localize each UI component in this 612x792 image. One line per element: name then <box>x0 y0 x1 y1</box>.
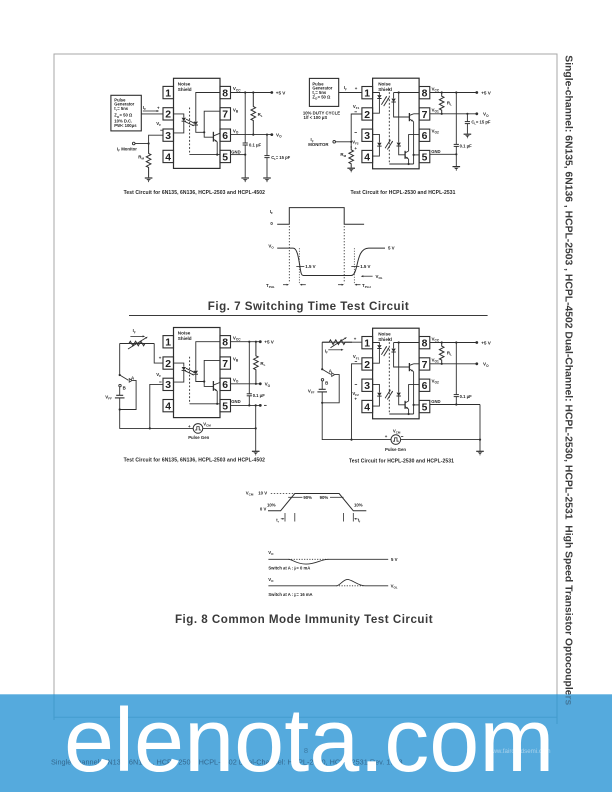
node +5V terminal (circuit 2) <box>475 91 478 94</box>
junction vcc bus U2 <box>398 91 400 93</box>
wire emitter2 to bottom rail U4 <box>408 409 410 414</box>
wire pin6 to collector2 U2 <box>409 135 420 151</box>
wire VCM to ground (fig8 right) <box>401 439 480 441</box>
wire LED2 cathode to pin4 U4 <box>373 397 380 407</box>
node +5V terminal (fig8 left) <box>259 340 262 343</box>
svg-text:7: 7 <box>222 359 228 370</box>
svg-text:Shield: Shield <box>378 337 392 342</box>
svg-text:7: 7 <box>422 360 428 371</box>
svg-text:Pulse Gen: Pulse Gen <box>188 435 209 440</box>
pin 2 U1 <box>163 108 174 120</box>
svg-text:+: + <box>157 106 160 111</box>
svg-text:90%: 90% <box>320 495 329 500</box>
internal shield dashed line U3 <box>189 357 191 404</box>
junction emitter1-pin5 U4 <box>413 404 415 406</box>
internal bottom ground rail U2 <box>389 163 413 165</box>
pin 6 U1 <box>220 129 231 141</box>
capacitor 0.1uF bypass (circuit 1) <box>244 93 246 144</box>
svg-text:B: B <box>123 385 126 390</box>
pin 5 U1 <box>220 150 231 162</box>
IF monitor terminal (circuit 2) <box>333 141 336 144</box>
svg-text:8: 8 <box>422 89 428 100</box>
pulse generator source box (circuit 1) <box>111 95 141 131</box>
node gnd terminal (fig8 left) <box>259 404 262 407</box>
pin 4 U1 <box>163 150 174 162</box>
wire pin5 gnd rail (fig8 right) <box>430 404 480 406</box>
wire pin6 to VO (fig8 left) <box>231 383 261 385</box>
wire photodiode1 to base1 U2 <box>394 102 410 117</box>
wire VCC rail to +5V (fig8 left) <box>231 341 261 343</box>
pin 6 U4 <box>419 379 430 391</box>
svg-text:PW< 100μs: PW< 100μs <box>114 123 137 128</box>
pin 5 U2 <box>419 150 430 162</box>
junction bypass bottom (fig8 left) <box>248 404 250 406</box>
svg-text:5: 5 <box>422 402 428 413</box>
svg-text:3: 3 <box>364 131 370 142</box>
IF current arrow (circuit 1) <box>143 110 158 112</box>
wire contact A loop (fig8 right) <box>322 375 339 403</box>
svg-text:= 50 Ω: = 50 Ω <box>318 95 331 100</box>
wire pin5 stub U4 <box>414 404 420 406</box>
wire LED cathode to pin3 U1 <box>174 122 184 133</box>
wire photodiode1 to base1 U4 <box>394 352 410 367</box>
IF monitor terminal (circuit 1) <box>132 142 135 145</box>
wire pin8 rail U2 <box>394 92 420 94</box>
wire pulse generator to pin 2 <box>141 113 163 115</box>
resistor RM (circuit 2) <box>349 146 354 168</box>
wire LED1 cathode to pin2 U4 <box>373 349 380 363</box>
wire pin3 to LED2 U4 <box>373 384 380 392</box>
pin 2 U4 <box>362 358 373 370</box>
junction gnd drop (fig8 left) <box>255 404 257 406</box>
junction RL bottom / VO rail <box>252 134 254 136</box>
svg-text:10%: 10% <box>354 502 363 507</box>
photodiode channel 2 U2 <box>397 143 401 146</box>
junction bypass top (fig8 right) <box>455 341 457 343</box>
pin 4 U4 <box>362 400 373 412</box>
tf fall time measure <box>343 513 345 522</box>
node VO terminal (fig8 left) <box>259 382 262 385</box>
wire gnd rail down (fig8 left) <box>255 405 257 451</box>
wire LED1 cathode to pin2 U2 <box>373 99 380 113</box>
junction battery bottom (fig8 right) <box>321 402 323 404</box>
svg-text:+5 V: +5 V <box>481 340 492 345</box>
LED emitter diode U3 <box>182 367 186 370</box>
svg-text:Test Circuit for HCPL-2530 and: Test Circuit for HCPL-2530 and HCPL-2531 <box>350 190 455 196</box>
svg-text:+5 V: +5 V <box>481 90 492 95</box>
switch contact B (fig8 left) <box>119 384 121 386</box>
pin 8 U4 <box>419 337 430 349</box>
svg-text:1.5 V: 1.5 V <box>305 264 315 269</box>
svg-text:3: 3 <box>364 381 370 392</box>
svg-text:+: + <box>354 336 357 341</box>
battery VFF (fig8 right) <box>321 381 323 389</box>
resistor RL load (circuit 1) <box>251 93 256 135</box>
junction RL bottom (fig8 left) <box>255 383 257 385</box>
optocoupler package U3 <box>174 328 221 418</box>
svg-text:1: 1 <box>364 339 370 350</box>
1.5V threshold marker left <box>298 248 300 283</box>
svg-text:+5 V: +5 V <box>276 90 287 95</box>
svg-text:2: 2 <box>165 110 171 121</box>
light coupling arrows U1 <box>186 119 195 123</box>
resistor RM (circuit 1) <box>146 144 151 178</box>
wire LED cathode to pin3 U3 <box>174 371 184 382</box>
output transistor U1 <box>212 132 214 142</box>
svg-text:Noise: Noise <box>378 331 391 336</box>
svg-text:= 50 Ω: = 50 Ω <box>120 113 133 118</box>
junction base node U1 <box>203 131 205 133</box>
pin 1 U2 <box>362 87 373 99</box>
pin 1 U3 <box>163 336 174 348</box>
pin 1 U4 <box>362 337 373 349</box>
svg-text:Switch at A : I: Switch at A : I <box>268 566 295 571</box>
wire transistor emitter to pin5 rail U1 <box>216 142 218 155</box>
LED channel 1 U4 <box>377 345 381 348</box>
junction battery bottom (fig8 left) <box>119 408 121 410</box>
wire gnd down (fig8 right) <box>479 405 481 452</box>
svg-text:8: 8 <box>222 338 228 349</box>
junction monitor node (circuit 2) <box>350 141 352 143</box>
svg-text:Noise: Noise <box>178 82 191 87</box>
wire pin1 to LED1 U4 <box>373 343 380 345</box>
wire pin1 to LED1 U2 <box>373 93 380 95</box>
switch pole (fig8 right) <box>321 368 323 370</box>
svg-text:elenota.com: elenota.com <box>64 691 554 791</box>
svg-text:MONITOR: MONITOR <box>308 142 329 147</box>
separator rule under Fig.7 title <box>129 315 488 317</box>
wire photodiode to base node U3 <box>196 375 214 387</box>
wire emitter1 to gnd rail U2 <box>413 121 415 164</box>
svg-text:Test Circuit for 6N135, 6N136,: Test Circuit for 6N135, 6N136, HCPL-2503… <box>124 457 266 463</box>
svg-text:6: 6 <box>222 380 228 391</box>
svg-text:+: + <box>159 356 162 361</box>
capacitor 0.1uF bypass (circuit 2) <box>455 93 457 145</box>
variable resistor IF drive (fig8 right) <box>322 341 362 343</box>
svg-text:Shield: Shield <box>378 87 392 92</box>
output transistor U3 <box>212 381 214 391</box>
pin 3 U4 <box>362 379 373 391</box>
output transistor channel2 U2 <box>404 151 406 159</box>
svg-text:7: 7 <box>222 110 228 121</box>
svg-text:Noise: Noise <box>178 331 191 336</box>
output transistor channel1 U2 <box>408 113 410 121</box>
node VO terminal (fig8 right) <box>475 362 478 365</box>
junction pin2/VCM rail <box>350 439 352 441</box>
junction pin3/VCM rail <box>149 427 151 429</box>
wire photodiode2 to base2 U4 <box>399 396 405 404</box>
capacitor 0.1uF (fig8 right) <box>455 343 457 395</box>
svg-text:+: + <box>188 424 191 429</box>
svg-text:5 V: 5 V <box>388 245 395 250</box>
svg-text:+: + <box>385 434 388 439</box>
output transistor channel2 U4 <box>404 401 406 409</box>
wire battery to VCM rail (fig8 right) <box>322 403 391 440</box>
svg-text:B: B <box>325 381 328 386</box>
node VF2 labels (circuit 2) <box>355 132 357 134</box>
svg-text:4: 4 <box>364 152 370 163</box>
1.5V threshold marker right <box>353 248 355 283</box>
wire pin3 to IF monitor node <box>149 135 163 143</box>
wire LED2 cathode to pin4 U2 <box>373 147 380 157</box>
wire pin7 to base node U1 <box>204 111 220 132</box>
photodiode channel 1 U4 <box>391 349 395 352</box>
junction bypass top (circuit 2) <box>455 91 457 93</box>
vcc bus wire to channel2 U4 <box>398 343 400 393</box>
junction RL top <box>252 91 254 93</box>
capacitor 0.1uF (fig8 left) <box>248 342 250 394</box>
ground CL (circuit 2) <box>464 133 472 135</box>
svg-text:4: 4 <box>165 402 171 413</box>
switch contact A (fig8 left) <box>129 379 132 383</box>
wire resistor to pin2 (fig8 left) <box>154 344 163 364</box>
junction RL top (fig8 left) <box>255 341 257 343</box>
photodiode U1 <box>194 122 198 125</box>
svg-text:= 16 mA: = 16 mA <box>296 592 312 597</box>
photodiode channel 2 U4 <box>397 393 401 396</box>
pin 6 U2 <box>419 129 430 141</box>
junction bypass bottom (fig8 right) <box>455 403 457 405</box>
wire pin7 to collector1 U2 <box>414 113 420 115</box>
pin 5 U3 <box>220 400 231 412</box>
resistor RL load (circuit 2) <box>439 93 444 114</box>
svg-text:+5 V: +5 V <box>264 340 275 345</box>
svg-text:Fig. 7 Switching Time Test Cir: Fig. 7 Switching Time Test Circuit <box>208 300 409 313</box>
svg-text:Switch at A : I: Switch at A : I <box>268 592 295 597</box>
pin 7 U1 <box>220 108 231 120</box>
svg-text:3: 3 <box>165 380 171 391</box>
wire pin7 to collector1 U4 <box>414 363 420 365</box>
svg-text:0 V: 0 V <box>260 506 267 511</box>
wire pin5 internal ground rail U3 <box>190 403 220 405</box>
internal shield dashed line U2 <box>388 89 390 165</box>
ground main (fig8 left) <box>252 450 260 452</box>
node +5V terminal (circuit 1) <box>270 91 273 94</box>
capacitor CL load (circuit 2) <box>466 114 468 122</box>
90% level markers <box>288 496 302 498</box>
svg-text:10 V: 10 V <box>258 491 267 496</box>
pin 3 U2 <box>362 129 373 141</box>
wire pin8 to photodiode U3 <box>196 342 220 371</box>
wire pin7 to VO (fig8 right) <box>430 363 477 365</box>
svg-text:0.1 μF: 0.1 μF <box>460 144 473 149</box>
wire pin2 to LED anode U3 <box>174 363 184 367</box>
pin 2 U3 <box>163 357 174 369</box>
wire pin3 to LED2 U2 <box>373 134 380 142</box>
pin 7 U2 <box>419 108 430 120</box>
page border frame <box>54 54 557 717</box>
svg-text:3: 3 <box>165 131 171 142</box>
wire VCM to ground node (fig8 left) <box>203 427 256 429</box>
switch pole (fig8 left) <box>119 374 121 376</box>
node VF2 labels (fig8 right) <box>355 383 357 385</box>
LED channel 2 U2 <box>377 143 381 146</box>
wire pin2 to RM (circuit 2) <box>351 114 362 148</box>
svg-text:5: 5 <box>422 152 428 163</box>
light arrows channel 2 U4 <box>385 390 390 399</box>
junction RM top <box>148 142 150 144</box>
svg-text:5: 5 <box>222 402 228 413</box>
junction CL top <box>266 134 268 136</box>
svg-text:6: 6 <box>422 381 428 392</box>
wire to switch pole (fig8 left) <box>119 344 121 376</box>
junction emitter-gnd U3 <box>216 403 218 405</box>
svg-text:Noise: Noise <box>378 81 391 86</box>
svg-text:2: 2 <box>364 110 370 121</box>
wire pin5 gnd (circuit 2) <box>430 153 457 155</box>
wire VCC rail to +5V (circuit 2) <box>430 92 477 94</box>
internal shield dashed line U1 <box>189 108 191 155</box>
wire pin6 to VO terminal (circuit 1) <box>231 134 272 136</box>
wire photodiode 1 drop U2 <box>393 93 395 99</box>
svg-text:Test Circuit for 6N135, 6N136,: Test Circuit for 6N135, 6N136, HCPL-2503… <box>124 190 266 196</box>
junction bottom rail U4 <box>408 413 410 415</box>
svg-text:7: 7 <box>422 110 428 121</box>
photodiode channel 1 U2 <box>391 99 395 102</box>
pin 4 U3 <box>163 400 174 412</box>
svg-text:6: 6 <box>222 131 228 142</box>
junction RL top (fig8 right) <box>441 341 443 343</box>
svg-text:4: 4 <box>165 152 171 163</box>
capacitor CL load (circuit 1) <box>266 135 268 156</box>
node VO terminal (circuit 2) <box>475 112 478 115</box>
optocoupler package U4 <box>373 328 420 419</box>
svg-text:6: 6 <box>422 131 428 142</box>
internal shield dashed line U4 <box>388 339 390 415</box>
wire emitter1 to gnd rail U4 <box>413 371 415 414</box>
sidebar text tail through banner <box>563 55 574 705</box>
node +5V terminal (fig8 right) <box>475 341 478 344</box>
vcc bus wire to channel2 U2 <box>398 93 400 143</box>
wire battery to VCM rail (fig8 left) <box>120 410 194 429</box>
junction VCM/ground (fig8 left) <box>255 427 257 429</box>
svg-text:10%: 10% <box>267 502 276 507</box>
svg-text:+: + <box>354 397 357 402</box>
svg-text:Test Circuit for HCPL-2530 and: Test Circuit for HCPL-2530 and HCPL-2531 <box>349 458 454 464</box>
wire pin8 to photodiode U1 <box>196 93 220 122</box>
wire pin2 down to VCM rail (fig8 right) <box>352 364 362 440</box>
svg-text:= 15 pF: = 15 pF <box>476 119 491 124</box>
wire pin3 down to VCM rail (fig8 left) <box>150 384 163 428</box>
wire pin6 to collector2 U4 <box>409 385 420 401</box>
junction vcc bus U4 <box>398 341 400 343</box>
svg-text:Shield: Shield <box>178 87 192 92</box>
resistor RL (fig8 left) <box>254 342 259 384</box>
resistor RL (fig8 right) <box>439 343 444 364</box>
pin 3 U1 <box>163 129 174 141</box>
svg-text:+: + <box>355 86 358 91</box>
pin 3 U3 <box>163 378 174 390</box>
wire contact A loop (fig8 left) <box>120 380 136 409</box>
light coupling arrows U3 <box>186 368 195 372</box>
internal bottom ground rail U4 <box>389 413 413 415</box>
svg-text:0.1 μF: 0.1 μF <box>249 143 262 148</box>
pin 8 U2 <box>419 87 430 99</box>
pin 1 U1 <box>163 86 174 98</box>
pin 6 U3 <box>220 378 231 390</box>
wire pin5 stub U2 <box>414 154 420 156</box>
node VO terminal (circuit 1) <box>270 133 273 136</box>
svg-text:2: 2 <box>165 359 171 370</box>
svg-text:Fig. 8 Common Mode Immunity Te: Fig. 8 Common Mode Immunity Test Circuit <box>175 613 433 626</box>
wire pin2 to LED anode U1 <box>174 114 184 118</box>
svg-text:+: + <box>354 146 357 151</box>
switch contact B (fig8 right) <box>321 379 323 381</box>
junction bottom rail U2 <box>408 163 410 165</box>
wire photodiode2 to base2 U2 <box>399 146 405 154</box>
svg-text:5 V: 5 V <box>391 557 398 562</box>
ground main (fig8 right) <box>476 450 484 452</box>
svg-text:= 5ns: = 5ns <box>117 106 128 111</box>
svg-text:0.1 μF: 0.1 μF <box>460 394 473 399</box>
optocoupler package U1 <box>174 78 221 168</box>
svg-text:90%: 90% <box>303 495 312 500</box>
wire to switch pole (fig8 right) <box>321 342 323 369</box>
pin 2 U2 <box>362 108 373 120</box>
LED channel 1 U2 <box>377 95 381 98</box>
LED emitter diode U1 <box>182 118 186 121</box>
svg-text:0.1 μF: 0.1 μF <box>253 393 266 398</box>
wire photodiode to base node U1 <box>196 125 214 137</box>
svg-text:GND: GND <box>431 399 440 404</box>
wire pin5 gnd rail (fig8 left) <box>231 404 261 406</box>
dotted edge marker falling <box>343 226 345 283</box>
junction base node U3 <box>203 380 205 382</box>
light arrows channel 1 U4 <box>381 346 386 355</box>
pulse generator source box (circuit 2) <box>309 78 338 106</box>
LED channel 2 U4 <box>377 393 381 396</box>
svg-text:2: 2 <box>364 360 370 371</box>
junction emitter-gnd U1 <box>216 154 218 156</box>
junction RL bottom (fig8 right) <box>441 363 443 365</box>
wire pin8 rail U4 <box>394 342 420 344</box>
svg-text:8: 8 <box>422 339 428 350</box>
wire pulse generator to pin 1 <box>339 92 362 94</box>
ground RM (circuit 1) <box>145 177 153 179</box>
wire VCC rail to +5V (fig8 right) <box>430 342 477 344</box>
ground CL (circuit 1) <box>263 177 271 179</box>
junction gnd rail / bypass <box>244 154 246 156</box>
output transistor channel1 U4 <box>408 363 410 371</box>
pin 7 U4 <box>419 358 430 370</box>
junction RL bottom (circuit 2) <box>441 113 443 115</box>
pin 8 U1 <box>220 86 231 98</box>
ground RM (circuit 2) <box>347 167 355 169</box>
optocoupler package U2 <box>373 78 420 169</box>
light arrows channel 1 U2 <box>381 96 386 105</box>
svg-text:8: 8 <box>222 88 228 99</box>
wire emitter2 to bottom rail U2 <box>408 159 410 164</box>
ground bypass (circuit 1) <box>241 177 249 179</box>
svg-text:1/f < 100 μS: 1/f < 100 μS <box>304 115 328 120</box>
pin 8 U3 <box>220 336 231 348</box>
tr rise time measure <box>284 513 286 522</box>
dotted edge marker rising <box>288 226 290 283</box>
svg-text:Single-channel: 6N135, 6N136 ,: Single-channel: 6N135, 6N136 , HCPL-2503… <box>563 55 574 705</box>
wire pin7 to VO terminal (circuit 2) <box>430 113 477 115</box>
wire pin5 to gnd drop (circuit 1) <box>231 154 246 156</box>
variable resistor IF drive (fig8 left) <box>120 343 155 345</box>
wire pin5 internal ground rail U1 <box>190 154 220 156</box>
wire photodiode 1 drop U4 <box>393 343 395 349</box>
svg-text:4: 4 <box>364 402 370 413</box>
pin 4 U2 <box>362 150 373 162</box>
junction bypass top (fig8 left) <box>248 341 250 343</box>
wire VCC rail to +5V (circuit 1) <box>231 92 272 94</box>
svg-text:GND: GND <box>431 149 440 154</box>
junction gnd rail (circuit 2) <box>455 153 457 155</box>
junction gnd (fig8 right) <box>479 439 481 441</box>
